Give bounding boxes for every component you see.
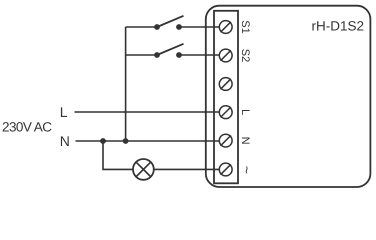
svg-text:L: L [60, 104, 68, 120]
svg-text:230V AC: 230V AC [2, 119, 52, 134]
svg-text:rH-D1S2: rH-D1S2 [311, 19, 364, 34]
svg-text:S2: S2 [239, 49, 251, 62]
svg-text:L: L [239, 109, 251, 115]
svg-text:S1: S1 [239, 20, 251, 33]
svg-text:N: N [239, 137, 251, 145]
svg-text:N: N [60, 133, 70, 149]
svg-text:~: ~ [239, 166, 255, 174]
